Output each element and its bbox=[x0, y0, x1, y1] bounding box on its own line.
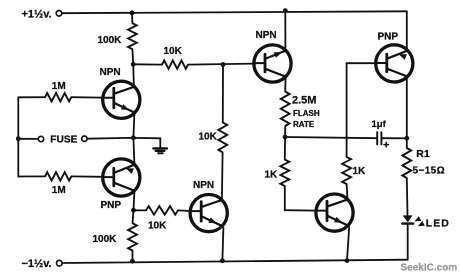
fuse right terminal bbox=[82, 136, 87, 141]
transistor Q5 PNP bbox=[376, 45, 413, 82]
wire Q6 emitter bbox=[347, 227, 349, 261]
resistor 1K left bbox=[280, 160, 289, 186]
svg-text:LED: LED bbox=[426, 217, 450, 229]
wire node B to ground bbox=[133, 137, 160, 139]
wire 10K vertical top lead bbox=[222, 65, 224, 123]
svg-text:NPN: NPN bbox=[100, 67, 121, 78]
resistor 100K top bbox=[128, 23, 137, 49]
svg-text:1M: 1M bbox=[52, 81, 66, 92]
resistor 1K right bbox=[342, 157, 351, 184]
fuse left terminal bbox=[38, 136, 43, 141]
capacitor C1 1uf bbox=[376, 132, 378, 144]
node D (10K junction) bbox=[221, 62, 226, 67]
resistor 10K vertical bbox=[218, 122, 227, 152]
transistor Q4 NPN bbox=[254, 45, 291, 82]
wire Q5 base bbox=[347, 62, 376, 64]
svg-text:PNP: PNP bbox=[101, 200, 122, 211]
wire 10K to Q3 base bbox=[178, 209, 191, 212]
svg-text:10K: 10K bbox=[164, 46, 183, 57]
resistor 1M bottom bbox=[45, 172, 71, 180]
wire 1M bottom left lead bbox=[18, 175, 45, 177]
wire 1K right to Q6 collector bbox=[346, 184, 349, 200]
node left rail / fuse junction bbox=[16, 136, 21, 141]
svg-text:+1½v.: +1½v. bbox=[22, 9, 52, 21]
transistor Q6 NPN bbox=[316, 194, 353, 231]
transistor Q2 PNP bbox=[103, 159, 140, 196]
wire 100K top lead bbox=[131, 13, 133, 23]
svg-text:RATE: RATE bbox=[293, 120, 315, 129]
svg-text:1μf: 1μf bbox=[372, 119, 387, 130]
terminal -1.5V bbox=[57, 260, 63, 266]
wire Q2 collector bbox=[133, 191, 136, 210]
svg-text:FLASH: FLASH bbox=[293, 109, 320, 118]
wire 100K bottom lead bbox=[131, 251, 133, 262]
resistor 10K bottom bbox=[146, 206, 178, 214]
node E (2.5M / cap / 1K) bbox=[283, 135, 288, 140]
svg-text:1M: 1M bbox=[52, 185, 66, 196]
svg-text:R1: R1 bbox=[416, 148, 430, 160]
wire LED to bottom rail bbox=[407, 225, 409, 260]
svg-text:2.5M: 2.5M bbox=[292, 94, 316, 106]
svg-text:10K: 10K bbox=[148, 221, 167, 232]
wire Q5 collector bbox=[406, 76, 408, 138]
wire 1M bottom to Q2 base bbox=[71, 175, 103, 177]
svg-text:NPN: NPN bbox=[193, 180, 214, 191]
wire 1M top left lead bbox=[18, 96, 45, 98]
resistor 1M top bbox=[45, 93, 71, 101]
node C (Q2 collector / 10K) bbox=[131, 208, 136, 213]
node top rail / 100K bbox=[130, 10, 135, 15]
svg-text:SeekIC.com: SeekIC.com bbox=[401, 262, 458, 273]
wire capacitor to node F bbox=[381, 137, 406, 139]
wire to fuse bbox=[18, 138, 38, 140]
svg-text:−1½v.: −1½v. bbox=[22, 258, 52, 270]
svg-text:NPN: NPN bbox=[256, 30, 277, 41]
node top rail / Q4 bbox=[283, 8, 288, 13]
wire node A to 10K top bbox=[133, 63, 162, 65]
node F (cap / Q5 collector / R1) bbox=[404, 136, 409, 141]
resistor 2.5M bbox=[281, 92, 290, 127]
wire Q1 emitter bbox=[133, 114, 134, 138]
wire node E to capacitor bbox=[285, 137, 376, 138]
ground symbol bbox=[153, 147, 167, 149]
svg-text:1K: 1K bbox=[353, 166, 367, 177]
node B (emitters / fuse / ground) bbox=[131, 135, 136, 140]
wire 1M top to Q1 base bbox=[71, 96, 103, 98]
wire node C to 10K bbox=[134, 209, 147, 211]
svg-text:100K: 100K bbox=[93, 234, 118, 245]
wire ground drop bbox=[159, 138, 161, 148]
wire Q4 collector bbox=[284, 77, 286, 92]
svg-text:FUSE: FUSE bbox=[50, 135, 77, 146]
wire fuse to node bbox=[87, 137, 133, 140]
resistor R1 bbox=[402, 148, 411, 178]
wire Q2 emitter bbox=[133, 138, 134, 164]
node bottom rail / Q3 emitter bbox=[220, 258, 225, 263]
wire 2.5M to node E bbox=[284, 126, 286, 137]
transistor Q3 NPN bbox=[190, 195, 227, 232]
LED D1 bbox=[403, 215, 413, 222]
wire Q3 collector bbox=[221, 152, 224, 200]
wire Q5 base drop bbox=[346, 63, 348, 157]
wire 1K left drop bbox=[284, 186, 286, 210]
wire top rail right corner bbox=[406, 11, 408, 50]
svg-text:1K: 1K bbox=[265, 170, 279, 181]
wire Q4 emitter to rail bbox=[284, 11, 286, 51]
wire Q1 collector bbox=[132, 64, 135, 87]
wire 100K to node A bbox=[131, 49, 134, 64]
wire to Q6 base bbox=[285, 209, 317, 211]
svg-text:PNP: PNP bbox=[378, 32, 399, 43]
wire 100K bottom top lead bbox=[133, 210, 134, 223]
wire left rail bbox=[17, 97, 19, 176]
resistor 10K top bbox=[162, 60, 188, 68]
resistor 100K bottom bbox=[128, 223, 137, 250]
svg-text:100K: 100K bbox=[98, 35, 123, 46]
transistor Q1 NPN bbox=[103, 81, 140, 118]
node bottom rail / 100K bbox=[130, 259, 135, 264]
wire Q3 emitter bbox=[222, 228, 223, 261]
wire bottom rail bbox=[62, 260, 408, 263]
node A (Q1 collector / 10K) bbox=[131, 62, 136, 67]
svg-text:5−15Ω: 5−15Ω bbox=[413, 166, 446, 177]
wire R1 to LED bbox=[406, 178, 409, 215]
terminal +1.5V bbox=[56, 11, 62, 17]
wire node E to 1K left bbox=[284, 137, 286, 160]
node bottom rail / Q6 emitter bbox=[345, 258, 350, 263]
svg-text:10K: 10K bbox=[199, 132, 218, 143]
wire node F to R1 bbox=[406, 138, 408, 148]
wire 10K top to Q4 base bbox=[188, 64, 255, 65]
wire top rail bbox=[62, 11, 407, 13]
